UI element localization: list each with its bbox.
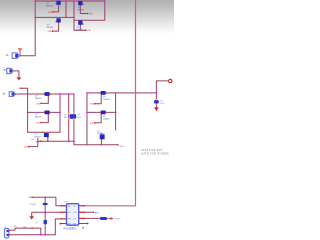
- diode D5: [100, 111, 107, 115]
- diode D7: [98, 217, 108, 220]
- svg-text:GND: GND: [90, 123, 95, 125]
- svg-text:10T: 10T: [77, 117, 81, 119]
- wire row B left: [28, 111, 60, 113]
- wire net A: [32, 197, 66, 206]
- wire row C left: [28, 131, 60, 133]
- diode D4: [100, 91, 107, 95]
- svg-text:PWR: PWR: [115, 218, 121, 220]
- wire Q4 source: [79, 25, 81, 30]
- wire stub x37.8: [37, 139, 39, 142]
- wire Q3 source: [80, 5, 87, 13]
- svg-text:BT+: BT+: [14, 226, 17, 228]
- wire transformer right winding: [73, 94, 75, 141]
- svg-text:1N4007: 1N4007: [34, 136, 42, 138]
- power arrow P2: [17, 77, 22, 80]
- wire left rail: [27, 88, 29, 132]
- svg-text:IRFZ44: IRFZ44: [77, 10, 85, 12]
- wire C-rail: [44, 197, 46, 235]
- svg-text:GND: GND: [87, 30, 92, 32]
- svg-text:GND: GND: [24, 147, 29, 149]
- svg-text:GATE FOR POWER: GATE FOR POWER: [141, 152, 169, 156]
- wire IC pin4 left: [61, 223, 67, 225]
- wire row A right / output: [87, 81, 168, 93]
- wire D3 stub: [47, 137, 49, 141]
- svg-text:1N4007: 1N4007: [35, 98, 43, 100]
- arrow right pin3: [111, 217, 114, 219]
- wire D1 gnd: [41, 96, 48, 104]
- wire row A left: [16, 93, 74, 95]
- svg-text:GND: GND: [48, 31, 53, 33]
- capacitor C2 electrolytic: [44, 218, 48, 226]
- wire P1 riser: [19, 1, 35, 56]
- wire right loop: [74, 1, 105, 20]
- port P1: [6, 53, 20, 59]
- svg-text:EE: EE: [64, 117, 67, 119]
- svg-text:1N4007: 1N4007: [97, 133, 105, 135]
- wire x74: [74, 1, 86, 30]
- transformer pin marks: [69, 112, 74, 119]
- diode D6: [100, 133, 105, 139]
- wire Q1 source: [53, 5, 59, 12]
- wire right block left rail: [86, 93, 88, 145]
- svg-text:BAT+: BAT+: [120, 145, 127, 148]
- svg-text:1N4007: 1N4007: [35, 116, 43, 118]
- svg-text:GND: GND: [36, 123, 41, 125]
- red texts: [19, 12, 95, 199]
- svg-text:IRFZ44: IRFZ44: [76, 30, 84, 32]
- no-connect dots: [60, 223, 62, 225]
- diode D3: [42, 132, 50, 139]
- port P2: [3, 68, 13, 73]
- svg-text:STAT FOR BAT: STAT FOR BAT: [141, 148, 163, 152]
- IC U1: [67, 204, 79, 226]
- svg-text:IRFZ44: IRFZ44: [46, 6, 54, 8]
- capacitor C1: [43, 201, 48, 207]
- svg-text:IRFZ44: IRFZ44: [47, 27, 55, 29]
- transistor Q3: [78, 1, 83, 5]
- capacitor C out: [154, 99, 159, 105]
- wire net C: [55, 219, 66, 235]
- wire IC pin4 right: [79, 223, 88, 225]
- wire D2 gnd: [41, 114, 48, 122]
- wire bottom gnd rail: [12, 234, 56, 236]
- svg-text:GND: GND: [36, 141, 41, 143]
- power arrow output: [154, 107, 159, 111]
- wire mid rail: [35, 16, 74, 18]
- transistor Q4: [78, 21, 83, 25]
- wire x115.6 rail: [115, 93, 117, 130]
- wire gnd elbow: [29, 141, 38, 146]
- power VCC T-bar: [18, 48, 22, 55]
- red pin dots: [20, 11, 119, 229]
- wire Q2 source: [53, 23, 59, 31]
- transistor Q2: [56, 18, 61, 22]
- gray texts: [115, 145, 169, 221]
- labels blue: [4, 3, 164, 231]
- transformer T1 core: [70, 114, 77, 119]
- wire D6 stub: [100, 139, 102, 144]
- wire net B: [32, 211, 67, 213]
- IC pin names: [68, 206, 77, 225]
- wire x66: [65, 1, 67, 17]
- svg-text:D?: D?: [32, 139, 35, 141]
- transistor Q1: [56, 1, 61, 5]
- svg-text:GND: GND: [48, 12, 53, 14]
- svg-text:GND: GND: [36, 103, 41, 105]
- wire D5 gnd: [95, 114, 102, 123]
- IC pins: [61, 206, 84, 224]
- svg-text:J?: J?: [4, 227, 6, 229]
- svg-text:1N4007: 1N4007: [103, 99, 111, 101]
- svg-text:GND: GND: [90, 104, 95, 106]
- wire connector pin1: [11, 228, 41, 235]
- svg-text:C?: C?: [35, 222, 38, 224]
- svg-text:1N4007: 1N4007: [103, 119, 111, 121]
- wire IC pin2 right: [79, 211, 94, 213]
- svg-text:U?A NE555: U?A NE555: [63, 228, 76, 231]
- wire pin stub: [21, 87, 28, 89]
- diode D1: [44, 92, 51, 96]
- wire x60 rail: [59, 94, 61, 132]
- power arrow net B: [29, 213, 34, 220]
- svg-text:GND: GND: [89, 14, 94, 16]
- junction dots magenta: [19, 0, 157, 235]
- svg-text:2.2u: 2.2u: [160, 103, 164, 105]
- connector J1: [4, 228, 11, 238]
- wire D4 gnd: [95, 95, 102, 104]
- wire bottom rail: [38, 141, 118, 145]
- wire transformer left winding: [68, 94, 70, 141]
- wire IC pin3 right: [79, 217, 111, 219]
- port P3: [3, 92, 16, 97]
- svg-text:C? 104: C? 104: [29, 204, 36, 206]
- wire pin1 to right rail: [79, 0, 136, 206]
- svg-text:AN?: AN?: [95, 212, 100, 215]
- output connector circle: [169, 79, 172, 82]
- wire top rail: [35, 0, 105, 2]
- wire P2: [13, 71, 19, 77]
- diode D2: [44, 111, 51, 115]
- svg-text:C?: C?: [160, 100, 163, 102]
- wire row B right: [87, 111, 116, 113]
- wire output cap: [155, 93, 157, 108]
